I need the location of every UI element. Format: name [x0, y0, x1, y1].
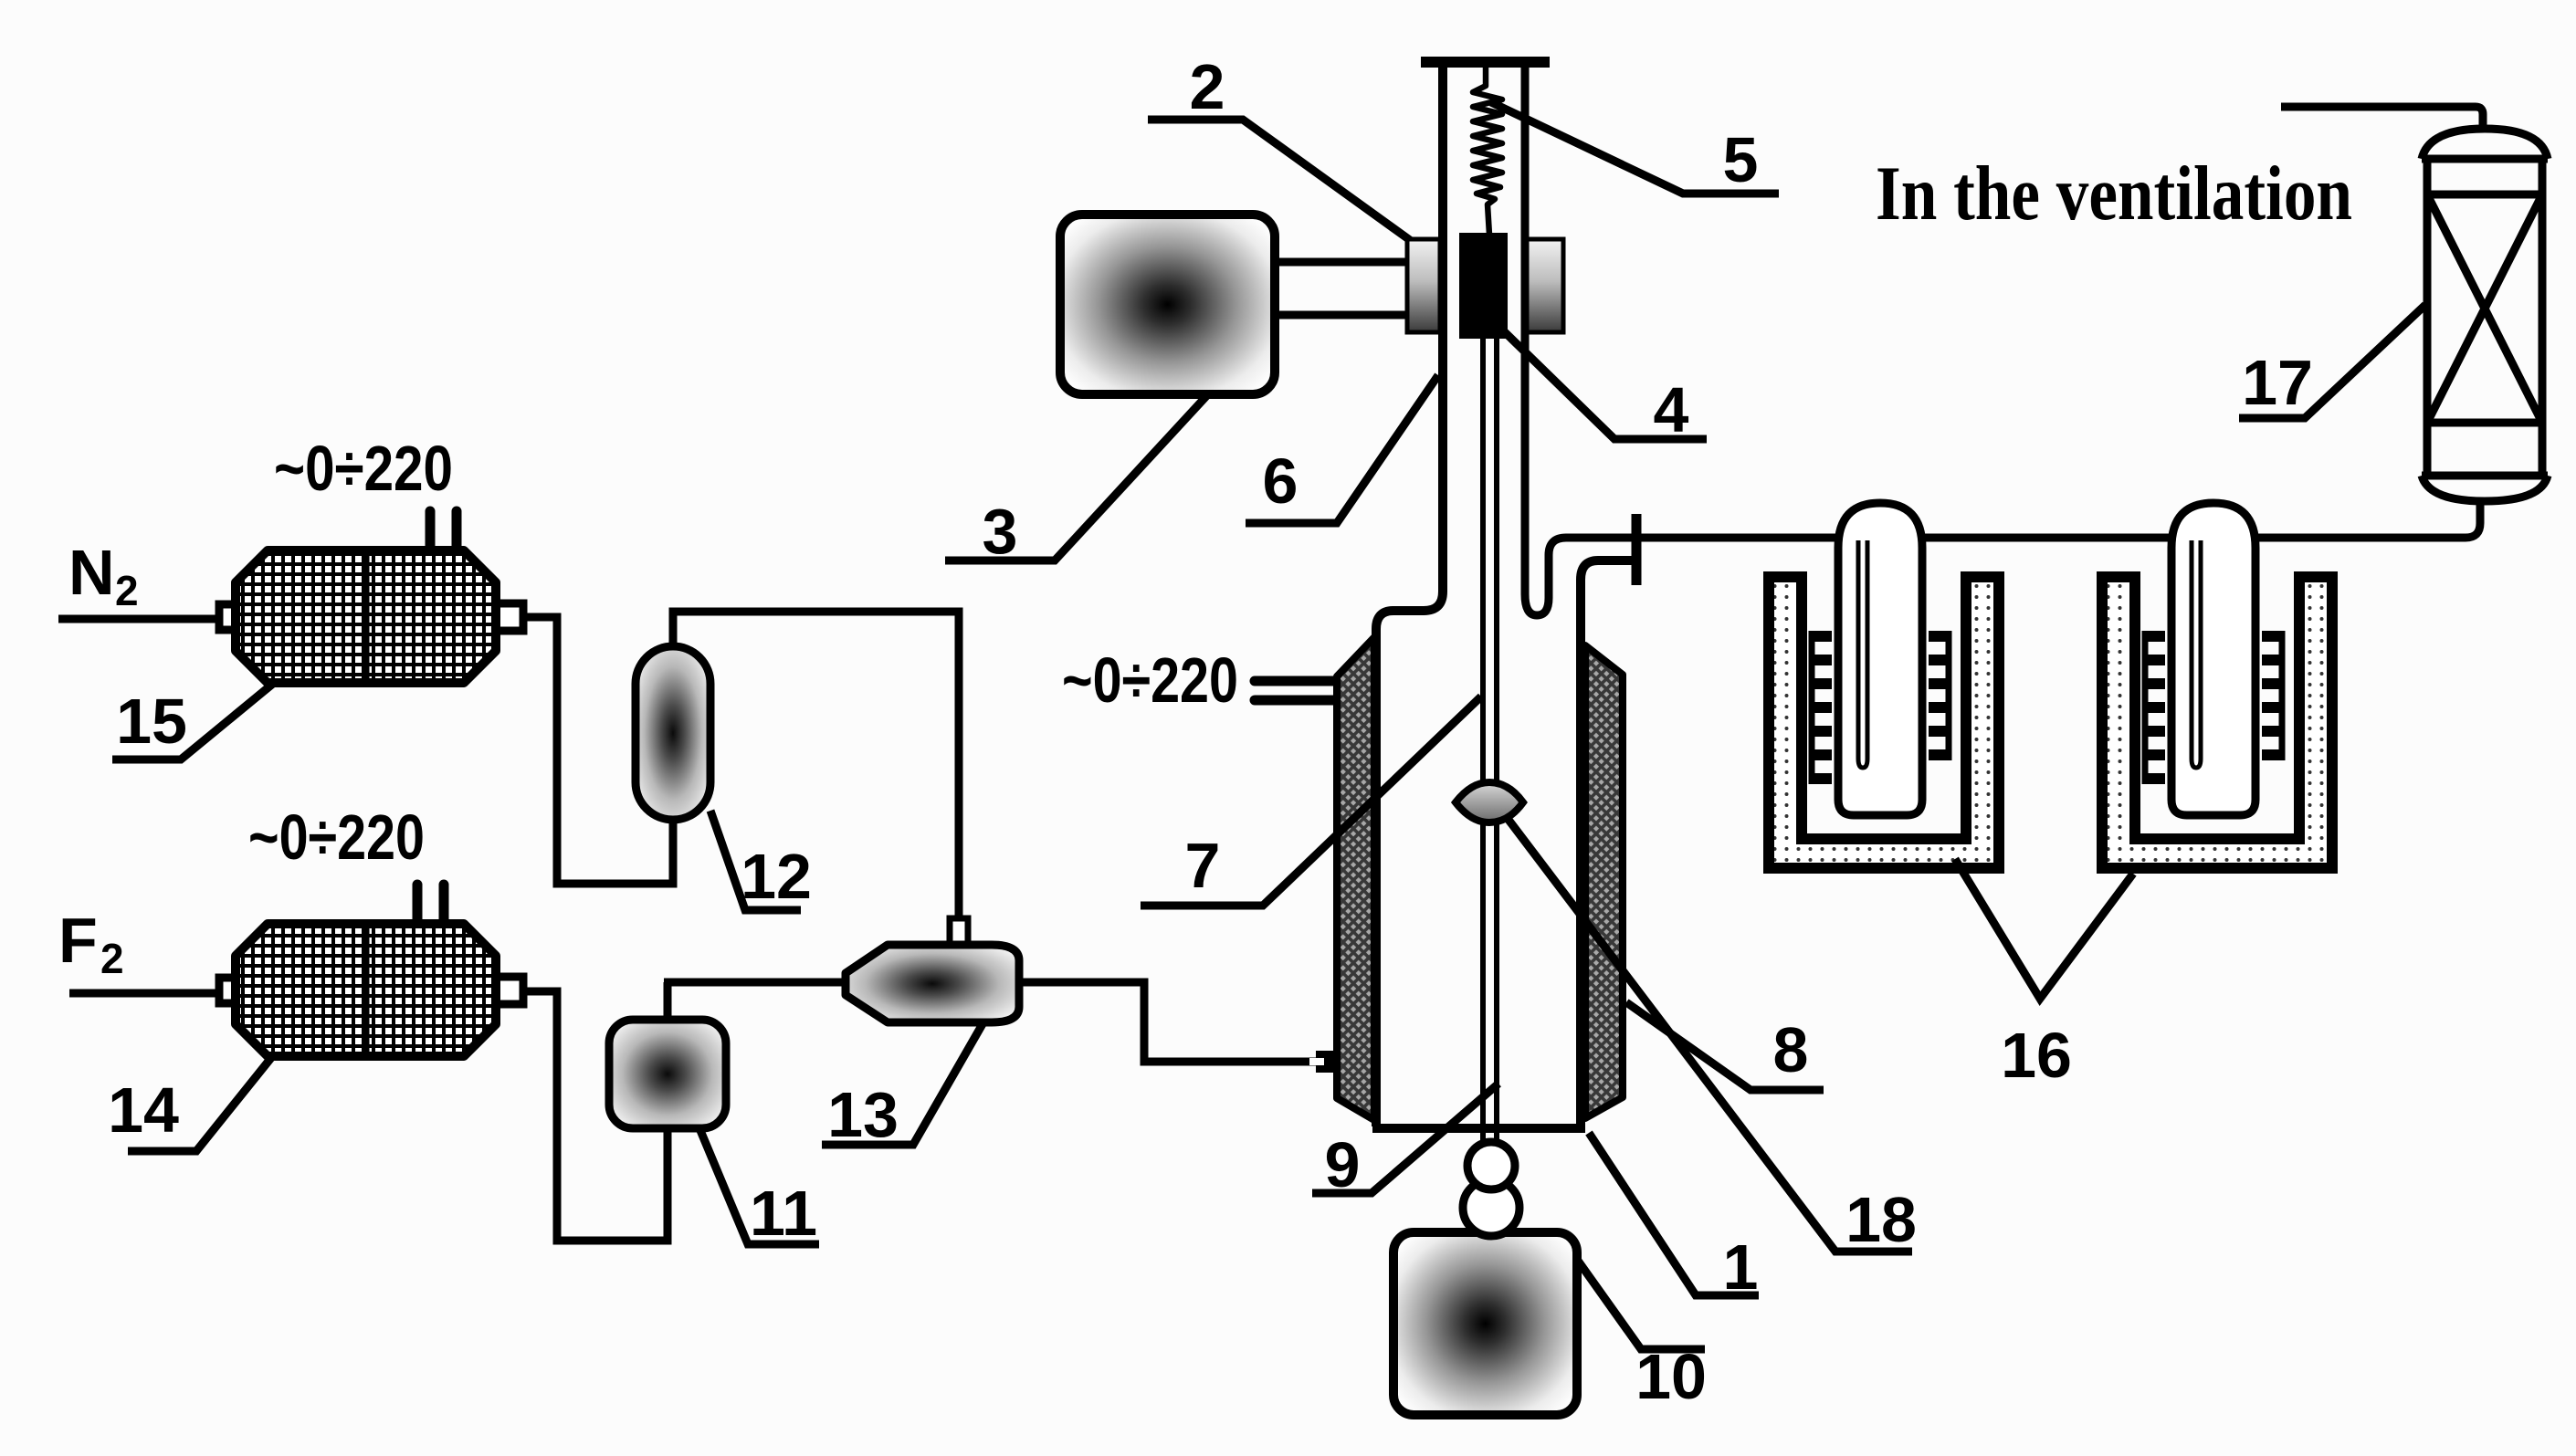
- trap heater fins right: [1929, 636, 1951, 755]
- wire F2 feed line: [69, 990, 219, 998]
- svg-text:F: F: [58, 905, 98, 976]
- label 11 with leader: [699, 1128, 819, 1249]
- label 7 with leader: [1141, 697, 1481, 906]
- svg-text:In the ventilation: In the ventilation: [1876, 151, 2352, 236]
- bottom outlet circle top: [1467, 1142, 1515, 1189]
- label 1 with leader: [1589, 1133, 1759, 1303]
- trap heater fins left: [1809, 636, 1832, 779]
- svg-text:~0÷220: ~0÷220: [274, 433, 453, 504]
- svg-text:15: 15: [116, 686, 187, 757]
- label N2: [68, 537, 139, 614]
- svg-text:6: 6: [1263, 445, 1299, 517]
- trap dewar wall (dotted): [1769, 577, 1999, 868]
- label 15 with leader: [112, 683, 274, 759]
- box 11 filter: [609, 1020, 726, 1128]
- spring 5: [1473, 68, 1502, 235]
- wire pipe vessel12 top to vessel13: [673, 612, 959, 920]
- coupling black block 4: [1459, 233, 1508, 339]
- heater jacket left (hatched): [1337, 637, 1374, 1120]
- electric stubs of vessel 14: [413, 885, 423, 928]
- label 2 with leader: [1148, 51, 1410, 240]
- reactor inlet nub: [1316, 1051, 1337, 1073]
- reactor neck right wall with U-bend into outlet: [1525, 68, 1838, 615]
- svg-text:2: 2: [100, 935, 124, 982]
- reactor top cap bar: [1421, 57, 1550, 68]
- electric stubs of vessel 15: [426, 511, 436, 555]
- label 5 with leader: [1491, 102, 1779, 195]
- wire pipe vessel13 to reactor inlet: [1015, 982, 1320, 1062]
- wire pipe vessel15 to vessel12: [517, 617, 673, 884]
- bottom outlet circle bottom: [1463, 1179, 1519, 1236]
- svg-text:18: 18: [1845, 1184, 1917, 1255]
- motor 3: [1060, 215, 1275, 394]
- column 17 absorber: [2422, 129, 2548, 501]
- svg-text:13: 13: [827, 1079, 899, 1150]
- wire pipe between traps: [1922, 534, 2171, 542]
- label 6 with leader: [1246, 375, 1438, 523]
- label 12 with leader: [710, 811, 812, 912]
- svg-text:11: 11: [750, 1178, 817, 1249]
- label 17 with leader: [2239, 305, 2425, 418]
- svg-text:12: 12: [741, 841, 812, 912]
- label 18 with leader: [1509, 820, 1917, 1255]
- svg-text:5: 5: [1723, 124, 1759, 195]
- svg-text:N: N: [68, 537, 115, 608]
- wire pipe box11 top to vessel13: [664, 982, 672, 1023]
- svg-text:2: 2: [115, 567, 139, 614]
- trap tube: [1838, 503, 1922, 815]
- stirrer shaft: [1480, 339, 1486, 1142]
- reactor vessel bottom: [1372, 1124, 1585, 1133]
- wire vent pipe from column top: [2281, 107, 2483, 131]
- coupling gray block right: [1527, 239, 1563, 332]
- wire pipe right trap to column 17: [2255, 498, 2480, 538]
- wire N2 feed line: [58, 615, 219, 623]
- reactor neck left wall and vessel left wall: [1376, 68, 1443, 1126]
- label 3 with leader: [945, 395, 1207, 567]
- wire outlet pipe to traps: [1641, 534, 1838, 542]
- label 13 with leader: [822, 1022, 983, 1150]
- svg-text:14: 14: [108, 1074, 179, 1146]
- vessel 13 mixer: [846, 945, 1019, 1022]
- label 4 with leader: [1505, 332, 1707, 445]
- svg-text:17: 17: [2242, 347, 2313, 418]
- wire pipe vessel14 to box11: [517, 991, 668, 1241]
- label 8 with leader: [1626, 1002, 1824, 1090]
- label 16 with V leader: [1955, 859, 2133, 1091]
- svg-text:2: 2: [1190, 51, 1225, 122]
- outlet flange tick: [1632, 514, 1642, 585]
- label 10 with leader: [1578, 1261, 1707, 1412]
- heater jacket right (hatched): [1585, 645, 1623, 1118]
- box 10 receiver: [1393, 1232, 1577, 1415]
- cold trap right 16: [2102, 503, 2332, 868]
- svg-text:4: 4: [1654, 374, 1689, 445]
- vessel 14 electrolyzer F2: [219, 924, 523, 1056]
- vessel 12 drier: [636, 646, 710, 820]
- svg-text:7: 7: [1185, 830, 1221, 901]
- svg-text:~0÷220: ~0÷220: [1062, 644, 1238, 716]
- coupling gray block left: [1407, 239, 1440, 332]
- svg-text:16: 16: [2001, 1020, 2072, 1091]
- label 14 with leader: [108, 1054, 274, 1151]
- label 9 with leader: [1312, 1084, 1498, 1200]
- stirrer paddle 18: [1456, 782, 1523, 822]
- svg-text:8: 8: [1773, 1014, 1809, 1085]
- label F2: [58, 905, 124, 982]
- vessel 15 electrolyzer N2: [219, 550, 523, 683]
- reactor vessel right wall and outlet branch: [1581, 560, 1636, 1126]
- cold trap left 16: [1769, 503, 1999, 868]
- motor shaft: [1269, 258, 1407, 267]
- trap dip tube: [1858, 540, 1867, 768]
- svg-text:~0÷220: ~0÷220: [248, 801, 425, 873]
- nipple on vessel 13 top: [950, 918, 968, 948]
- svg-text:3: 3: [983, 496, 1018, 567]
- heater electric stubs: [1255, 676, 1335, 686]
